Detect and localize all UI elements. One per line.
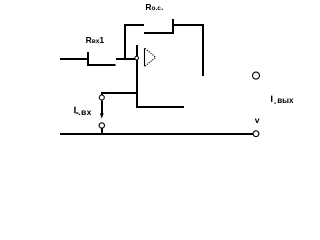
- resistor Roc right bar: [172, 19, 174, 34]
- output floating terminal circle: [253, 72, 260, 79]
- resistor Rvx1 bottom line: [87, 64, 116, 66]
- label Uvyx subscript: [277, 96, 293, 105]
- resistor Roc bottom line: [144, 32, 174, 34]
- source bottom terminal circle: [99, 123, 104, 128]
- label Uvx subscript: [81, 107, 92, 117]
- op-amp inverting bubble: [135, 56, 139, 60]
- source top terminal circle: [99, 95, 104, 100]
- rail right terminal circle: [253, 131, 259, 137]
- label v node marker: [255, 115, 260, 125]
- wire feedback right vertical: [202, 24, 204, 76]
- wire source top corner down: [101, 92, 103, 95]
- wire stub above op-amp bubble: [136, 45, 138, 57]
- wire input left: [60, 58, 88, 60]
- wire feedback top-left: [124, 24, 144, 26]
- wire feedback left vertical: [124, 25, 126, 60]
- wire to op-amp input: [116, 58, 135, 60]
- wire mid horizontal: [136, 106, 184, 108]
- source arrowhead: [100, 113, 104, 118]
- resistor Rvx1 left bar: [87, 52, 89, 65]
- label Uvyx glyph U (bar+dot): [271, 96, 276, 104]
- label Rvx1: [86, 35, 105, 45]
- label Uvx glyph U (bar+foot+dot): [74, 107, 80, 115]
- wire source bottom to rail: [101, 128, 103, 134]
- wire source top horizontal: [101, 92, 138, 94]
- ground rail: [60, 133, 253, 135]
- label Roc: [145, 2, 163, 12]
- wire below bubble vertical: [136, 60, 138, 108]
- source arrow shaft: [101, 100, 103, 114]
- op-amp triangle U1: [144, 48, 146, 66]
- wire feedback top-right: [172, 24, 204, 26]
